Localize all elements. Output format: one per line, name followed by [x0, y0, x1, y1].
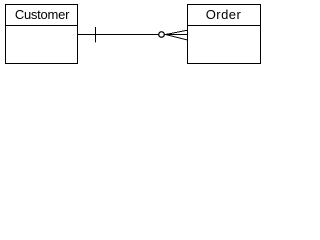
wire relationship line Customer to zero marker — [78, 34, 159, 36]
crow's foot middle prong — [164, 34, 187, 36]
zero marker circle — [159, 32, 165, 38]
one marker tick — [95, 27, 97, 42]
entity Order box — [188, 5, 261, 64]
entity Customer box — [6, 5, 78, 64]
crow's foot top prong — [166, 30, 188, 34]
svg-text:Customer: Customer — [15, 7, 70, 22]
svg-text:Order: Order — [206, 7, 242, 22]
entity Customer header separator — [6, 25, 78, 27]
crow's foot bottom prong — [166, 35, 188, 41]
entity Order header separator — [188, 25, 261, 27]
